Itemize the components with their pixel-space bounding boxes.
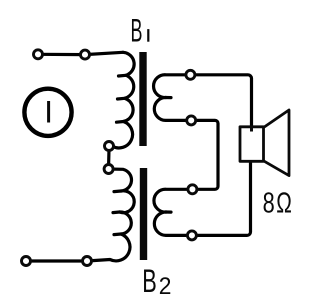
svg-text:8: 8 xyxy=(263,187,275,219)
cusp tick B2 secondary xyxy=(165,210,171,213)
label B2 xyxy=(142,263,171,299)
terminal B2 secondary bottom xyxy=(187,231,196,240)
transformer B1 primary winding xyxy=(110,52,134,148)
label 8 ohm xyxy=(263,187,292,219)
transformer core B2 xyxy=(140,168,147,260)
transformer core B1 xyxy=(139,52,146,146)
wire junction between windings xyxy=(107,149,111,166)
meter I xyxy=(24,89,71,136)
svg-text:Ω: Ω xyxy=(276,187,292,219)
wire top-left input pair xyxy=(38,52,123,54)
wire stub into speaker frame xyxy=(250,127,253,132)
terminal B1 secondary top xyxy=(186,70,195,79)
label B1 xyxy=(131,15,149,50)
transformer B2 secondary winding xyxy=(154,189,192,235)
wire B1 secondary bottom to B2 secondary top xyxy=(191,120,218,189)
cusp ticks B1 primary xyxy=(119,74,127,78)
terminal T3 xyxy=(22,257,31,266)
svg-text:B: B xyxy=(142,263,157,299)
wire B2 secondary bottom to speaker xyxy=(192,161,251,235)
terminal T4 xyxy=(83,257,92,266)
transformer B1 secondary winding xyxy=(154,75,191,121)
terminal T2 xyxy=(81,50,90,59)
terminal B1 secondary bottom xyxy=(187,116,196,125)
cusp tick B1 secondary xyxy=(165,96,171,99)
svg-text:2: 2 xyxy=(159,272,172,299)
cusp ticks B2 primary xyxy=(114,189,121,193)
terminal T1 xyxy=(34,50,43,59)
svg-text:B: B xyxy=(131,15,143,50)
transformer B2 primary winding xyxy=(26,169,134,261)
terminal junction upper xyxy=(105,142,114,151)
speaker 8-ohm xyxy=(240,110,289,176)
terminal B2 secondary top xyxy=(188,185,197,194)
wire B1 secondary top to speaker xyxy=(190,75,251,127)
terminal junction lower xyxy=(104,165,113,174)
